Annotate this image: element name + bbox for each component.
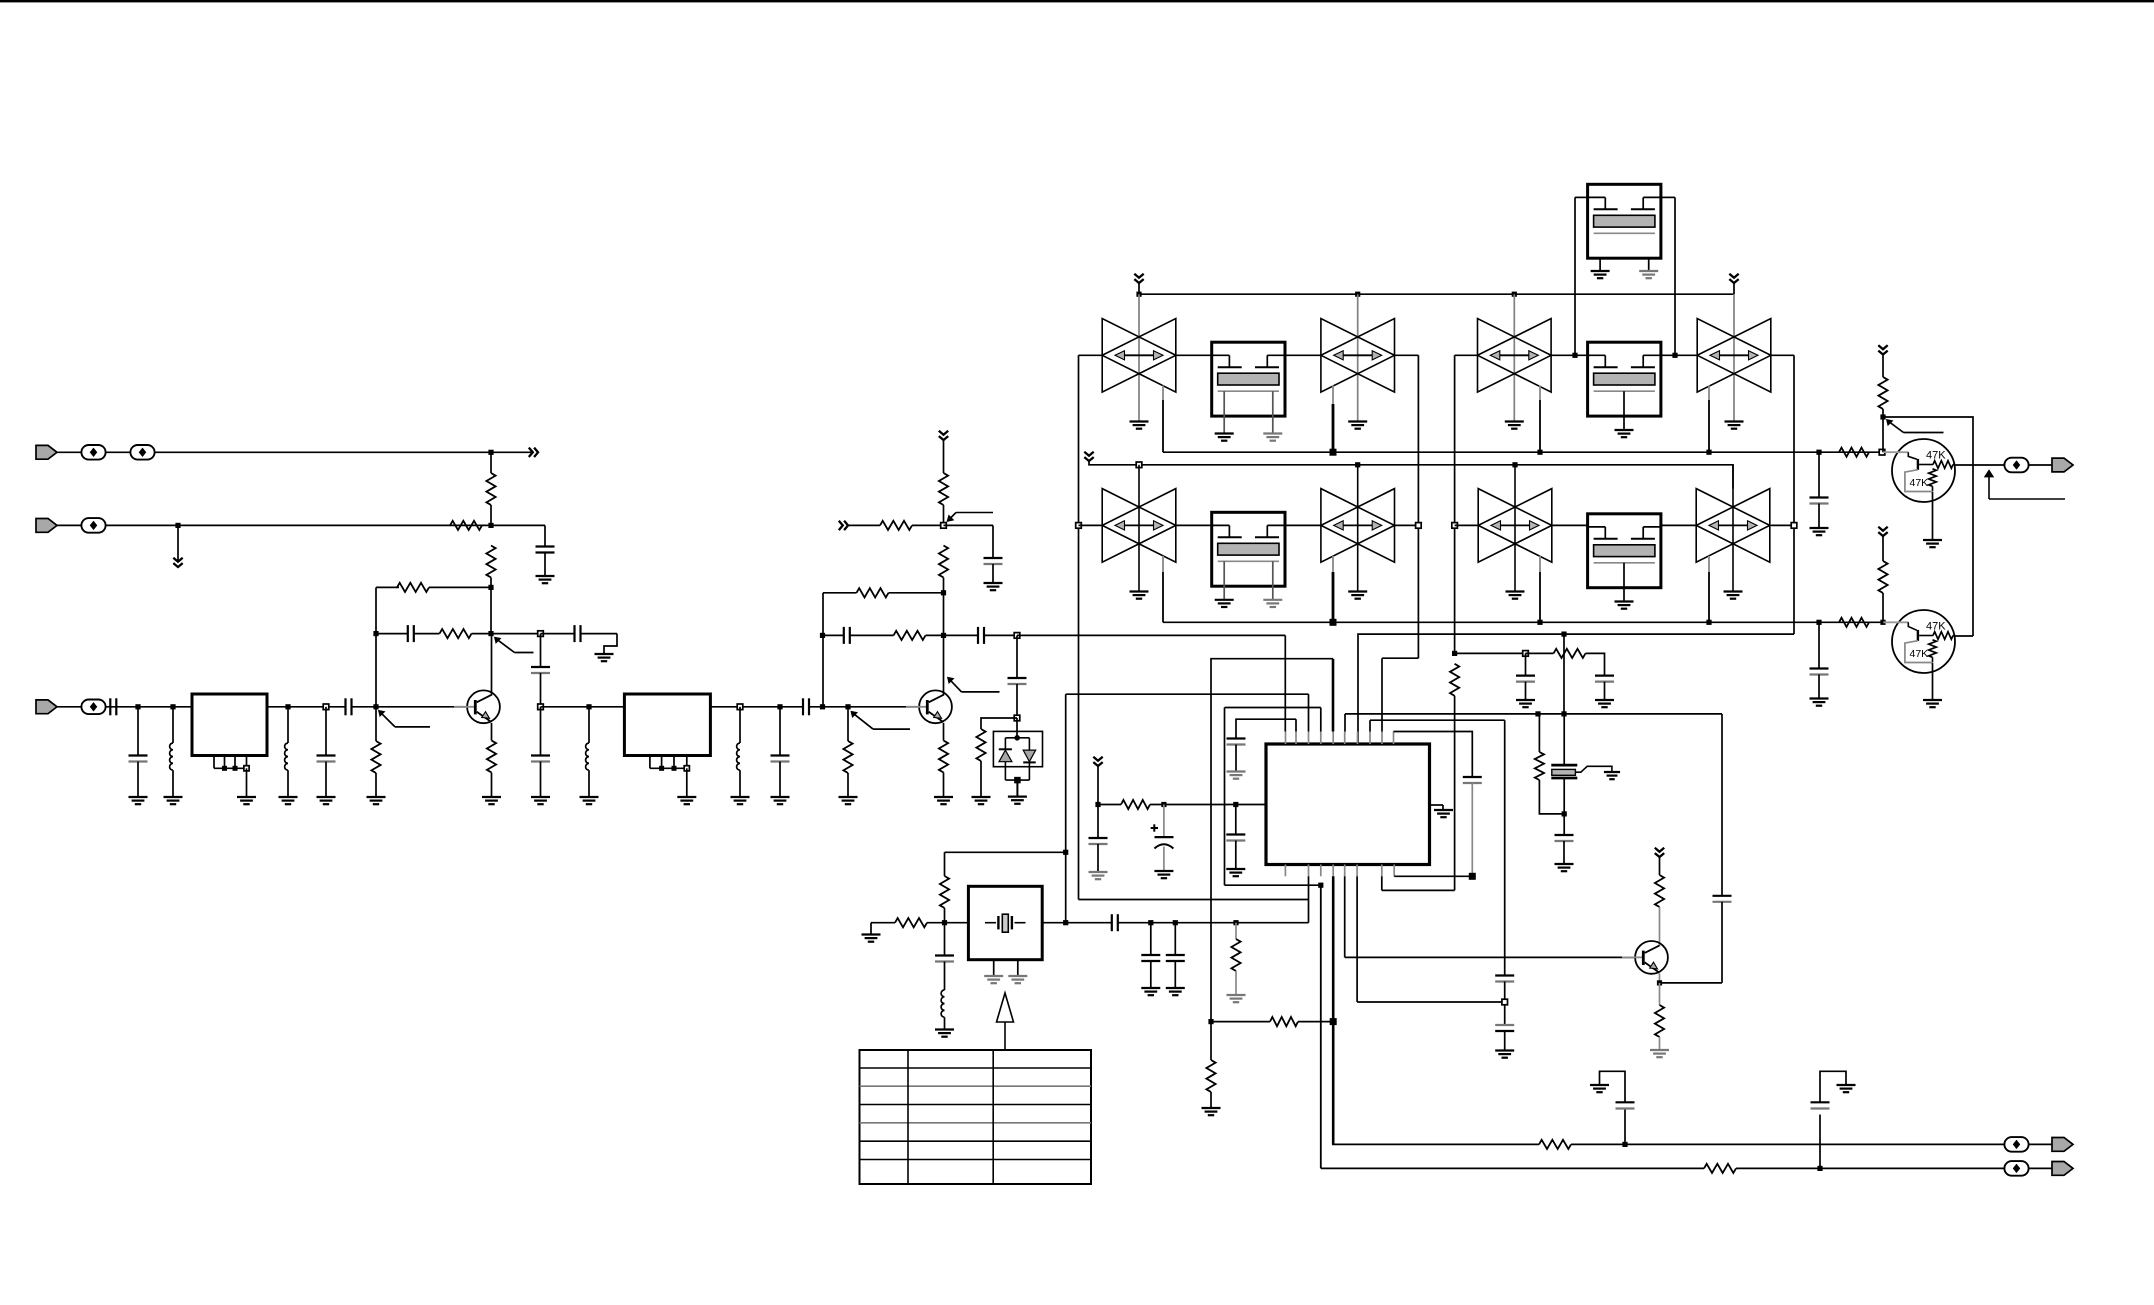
wire xyxy=(1430,804,1444,806)
wire xyxy=(1551,524,1588,526)
wire xyxy=(491,451,531,453)
wire xyxy=(1454,355,1456,653)
wire xyxy=(1661,524,1696,526)
ground xyxy=(1639,270,1658,272)
wire xyxy=(1563,814,1565,835)
node xyxy=(1452,651,1457,656)
node xyxy=(737,704,743,710)
ground xyxy=(1595,699,1614,701)
ground xyxy=(862,933,881,935)
capacitor C29 xyxy=(935,954,954,956)
ceramic filter row2 xyxy=(1102,489,1176,563)
wire xyxy=(686,768,688,797)
filter FL7 xyxy=(1588,514,1661,588)
wire xyxy=(1308,694,1310,731)
filter FL1 xyxy=(192,694,267,756)
ground xyxy=(1202,1107,1221,1109)
node xyxy=(1148,920,1153,925)
annotation arrow xyxy=(948,677,954,683)
wire xyxy=(544,525,546,546)
wire xyxy=(287,770,289,797)
IC U1 xyxy=(1266,744,1430,865)
wire xyxy=(1661,354,1697,356)
ground xyxy=(1348,420,1367,422)
wire xyxy=(541,706,625,708)
wire xyxy=(1455,652,1526,654)
ground xyxy=(1227,770,1246,772)
wire xyxy=(1344,876,1346,957)
wire xyxy=(1819,1115,1821,1169)
capacitor C1 xyxy=(536,545,555,547)
wire xyxy=(1079,354,1103,356)
wire xyxy=(943,440,945,473)
node xyxy=(941,633,946,638)
ground xyxy=(677,796,696,798)
ground xyxy=(1591,270,1610,272)
node xyxy=(941,590,946,595)
node xyxy=(1173,920,1178,925)
wire xyxy=(1954,635,1973,637)
resistor R18 xyxy=(1554,649,1586,658)
ground xyxy=(1506,590,1525,592)
filter FL2 xyxy=(624,694,710,756)
wire leg xyxy=(993,960,995,976)
wire xyxy=(984,634,1017,636)
ceramic filter row1 xyxy=(1102,319,1176,393)
ground xyxy=(595,653,614,655)
wire xyxy=(779,707,781,756)
ground xyxy=(1555,863,1574,865)
wire xyxy=(325,762,327,798)
node xyxy=(1817,1166,1822,1171)
ground xyxy=(1615,429,1634,431)
resistor R8 xyxy=(843,741,852,773)
filter FL3 xyxy=(1212,342,1285,416)
wire pin xyxy=(686,756,688,769)
ground xyxy=(482,796,501,798)
wire xyxy=(1586,653,1605,675)
wire xyxy=(1016,718,1018,738)
node xyxy=(1063,920,1068,925)
wire xyxy=(1138,294,1140,421)
wire xyxy=(540,707,542,756)
wire xyxy=(490,452,492,473)
node xyxy=(1706,450,1711,455)
wire xyxy=(1332,659,1335,732)
wire xyxy=(491,723,493,741)
capacitor C16 xyxy=(1810,496,1829,498)
ground xyxy=(1263,599,1282,601)
wire xyxy=(1174,961,1176,988)
wire xyxy=(541,633,575,635)
wire xyxy=(1526,652,1554,654)
wire xyxy=(287,707,289,743)
wire pin xyxy=(1320,732,1322,745)
ground xyxy=(1724,590,1743,592)
ground xyxy=(1226,868,1245,870)
wire xyxy=(172,707,174,743)
wire xyxy=(1932,663,1934,700)
annotation arrow xyxy=(495,637,501,643)
wire xyxy=(1659,983,1661,1005)
wire xyxy=(1005,737,1029,739)
arrow down xyxy=(1878,345,1887,349)
wire xyxy=(1882,536,1884,561)
wire xyxy=(1882,409,1884,417)
resistor R10 xyxy=(857,588,889,597)
ground xyxy=(1810,697,1829,699)
wire xyxy=(1211,659,1333,1022)
node xyxy=(1318,883,1323,888)
ground xyxy=(934,796,953,798)
ground xyxy=(1215,599,1234,601)
wire xyxy=(1016,684,1018,718)
ferrite bead FB1 xyxy=(81,445,105,460)
wire leg xyxy=(1223,391,1225,433)
wire xyxy=(2028,1167,2052,1169)
capacitor C10 xyxy=(771,754,790,756)
wire xyxy=(1235,841,1237,870)
ground xyxy=(1810,527,1829,529)
resistor R5 xyxy=(371,741,380,773)
wire xyxy=(1551,354,1588,356)
wire xyxy=(1089,461,1733,489)
capacitor C21 xyxy=(1463,776,1482,778)
wire xyxy=(1236,804,1266,806)
node xyxy=(170,704,175,709)
node xyxy=(488,631,493,636)
ground xyxy=(1650,1049,1669,1051)
connector J1 xyxy=(36,445,57,459)
annotation arrow xyxy=(1985,470,1994,477)
resistor R14 xyxy=(894,631,926,640)
wire xyxy=(710,706,803,708)
ferrite bead FB4 xyxy=(81,700,105,715)
diode D1b xyxy=(1023,750,1035,762)
node xyxy=(373,704,378,709)
arrow down xyxy=(1093,757,1102,761)
wire xyxy=(1708,556,1710,572)
wire xyxy=(491,773,493,798)
resistor R26 xyxy=(1270,1017,1298,1026)
ground xyxy=(1166,987,1185,989)
table xyxy=(860,1050,1092,1184)
inductor L2 xyxy=(285,743,288,770)
wire xyxy=(414,633,440,635)
node xyxy=(1233,802,1238,807)
wire xyxy=(1118,922,1309,924)
wire xyxy=(1235,971,1237,995)
wire xyxy=(1176,524,1212,526)
ground xyxy=(984,975,1003,977)
inductor L3 xyxy=(586,743,589,770)
wire xyxy=(491,633,540,635)
wire xyxy=(943,578,945,593)
wire xyxy=(944,1017,946,1029)
wire leg xyxy=(1599,258,1601,271)
arrow down xyxy=(1729,274,1738,278)
node xyxy=(538,631,544,637)
capacitor C19 xyxy=(1595,674,1614,676)
wire xyxy=(926,634,944,636)
node xyxy=(488,450,493,455)
node xyxy=(1535,711,1540,716)
ceramic filter row1 xyxy=(1697,319,1771,393)
wire xyxy=(1883,417,1973,636)
wire xyxy=(1211,1021,1270,1023)
wire xyxy=(491,524,545,526)
wire pin xyxy=(224,756,226,769)
ground xyxy=(1008,975,1027,977)
node xyxy=(777,704,782,709)
wire xyxy=(352,706,469,708)
wire xyxy=(944,923,946,956)
wire leg xyxy=(1623,563,1625,602)
wire leg xyxy=(1223,561,1225,600)
node xyxy=(1672,353,1677,358)
wire xyxy=(1882,355,1884,378)
wire leg xyxy=(1648,258,1650,271)
wire xyxy=(1624,1109,1626,1145)
wire xyxy=(376,633,408,635)
wire xyxy=(1538,714,1540,752)
wire xyxy=(1138,465,1140,592)
ground xyxy=(1604,771,1620,773)
ground xyxy=(1130,420,1149,422)
wire xyxy=(1079,899,1309,901)
wire xyxy=(1174,923,1176,955)
node xyxy=(1330,449,1337,456)
capacitor C2 xyxy=(109,698,111,715)
node xyxy=(1512,462,1517,467)
capacitor C23 xyxy=(1089,837,1108,839)
wire xyxy=(1513,294,1515,421)
wire xyxy=(1395,354,1419,356)
wire xyxy=(1298,1021,1332,1023)
wire xyxy=(1882,417,1884,452)
wire pin xyxy=(661,756,663,769)
wire xyxy=(1284,635,1286,731)
wire xyxy=(137,762,139,798)
wire xyxy=(1079,524,1103,526)
resistor R3 xyxy=(486,546,495,578)
resistor R16 xyxy=(1839,448,1869,457)
wire xyxy=(540,762,542,798)
wire xyxy=(1356,876,1358,1002)
wire xyxy=(944,908,946,923)
wire xyxy=(1771,524,1794,526)
node xyxy=(538,704,544,710)
wire xyxy=(847,773,849,797)
wire xyxy=(57,706,192,708)
ground xyxy=(1215,432,1234,434)
capacitor C14 xyxy=(977,627,979,644)
resistor R15 xyxy=(976,729,985,761)
wire xyxy=(1078,355,1080,899)
wire xyxy=(1285,524,1321,526)
ferrite bead FB3 xyxy=(81,518,105,533)
wire xyxy=(1504,1031,1506,1051)
wire xyxy=(376,586,399,588)
ground xyxy=(536,575,555,577)
capacitor C12 xyxy=(984,557,1003,559)
wire xyxy=(1525,682,1527,700)
wire xyxy=(1395,524,1419,526)
wire xyxy=(325,707,327,756)
ground xyxy=(984,582,1003,584)
node xyxy=(1014,735,1020,741)
node xyxy=(1561,632,1566,637)
inductor L1 xyxy=(170,743,173,770)
capacitor C34 xyxy=(1811,1101,1830,1103)
node xyxy=(1502,999,1508,1005)
node xyxy=(1706,620,1711,625)
wire leg xyxy=(1623,391,1625,430)
ground xyxy=(1615,600,1634,602)
resistor R2 xyxy=(450,521,482,530)
wire xyxy=(588,707,590,743)
wire xyxy=(1097,805,1099,839)
ground xyxy=(1130,590,1149,592)
wire xyxy=(1818,452,1820,497)
wire xyxy=(1016,780,1018,797)
wire top bus xyxy=(1139,293,1734,295)
wire xyxy=(1659,974,1661,983)
connector J5 xyxy=(2052,1138,2073,1152)
wire xyxy=(1954,464,2005,466)
node xyxy=(1562,811,1567,816)
wire xyxy=(490,505,492,525)
node xyxy=(1572,353,1577,358)
arrow in xyxy=(839,521,843,530)
node xyxy=(1879,449,1885,455)
resistor R27 xyxy=(1655,875,1664,907)
node xyxy=(1880,620,1885,625)
wire xyxy=(992,564,994,583)
wire xyxy=(1771,354,1794,356)
wire pin xyxy=(649,756,651,769)
wire xyxy=(177,525,179,562)
wire xyxy=(1504,982,1506,1026)
capacitor C5 xyxy=(344,698,346,715)
capacitor C17 xyxy=(1810,667,1829,669)
node xyxy=(941,523,947,529)
ceramic filter row1 xyxy=(1321,319,1395,393)
ground xyxy=(1725,420,1744,422)
node xyxy=(1622,1142,1627,1147)
ground xyxy=(237,796,256,798)
node xyxy=(845,704,850,709)
arrow down xyxy=(1655,848,1664,852)
node xyxy=(1014,715,1020,721)
wire xyxy=(1563,778,1565,814)
node xyxy=(1416,523,1422,529)
wire xyxy=(1357,465,1359,592)
resistor R9 xyxy=(939,741,948,773)
annotation arrow xyxy=(379,710,385,716)
wire xyxy=(1661,196,1675,198)
node xyxy=(1452,523,1458,529)
wire xyxy=(1471,783,1473,877)
wire xyxy=(1660,982,1723,984)
resistor R28 xyxy=(1655,1005,1664,1037)
connector J2 xyxy=(36,519,57,533)
arrow down xyxy=(1134,274,1143,278)
wire xyxy=(1320,708,1322,732)
wire xyxy=(1818,504,1820,529)
ground xyxy=(164,796,183,798)
wire xyxy=(1369,720,1371,731)
connector J4 xyxy=(2052,458,2073,472)
wire xyxy=(1454,696,1456,891)
node xyxy=(1537,620,1542,625)
wire xyxy=(1563,841,1565,864)
node xyxy=(1523,651,1529,657)
ground xyxy=(279,796,298,798)
inductor L4 xyxy=(737,743,740,770)
ground xyxy=(531,796,550,798)
wire xyxy=(604,634,617,654)
ground xyxy=(1923,539,1942,541)
ceramic filter row2 xyxy=(1478,489,1552,563)
capacitor C30 xyxy=(1111,914,1113,931)
node xyxy=(1136,292,1141,297)
wire xyxy=(1563,714,1565,765)
wire xyxy=(1332,1143,1539,1145)
wire xyxy=(1150,923,1152,955)
capacitor C31 xyxy=(1141,954,1160,956)
ground xyxy=(580,796,599,798)
wire xyxy=(491,634,493,696)
capacitor C33 xyxy=(1616,1101,1635,1103)
resistor R1 xyxy=(486,473,495,505)
annotation arrow xyxy=(997,993,1014,1022)
wire pin xyxy=(1344,865,1346,877)
capacitor C15 xyxy=(1008,677,1027,679)
resistor R12 xyxy=(880,521,912,530)
wire xyxy=(1308,876,1310,922)
resistor R6 xyxy=(487,741,496,773)
capacitor C18 xyxy=(1516,674,1535,676)
wire xyxy=(980,761,982,797)
wire xyxy=(1332,876,1335,1021)
wire xyxy=(490,587,492,633)
node xyxy=(1537,450,1542,455)
ceramic filter row1 xyxy=(1478,319,1552,393)
node xyxy=(684,766,689,771)
wire xyxy=(1721,714,1723,896)
wire xyxy=(1097,844,1099,872)
wire xyxy=(1394,732,1473,778)
capacitor C22 xyxy=(1226,833,1245,835)
resistor R24 xyxy=(1231,939,1240,971)
wire leg xyxy=(1272,561,1274,600)
wire xyxy=(1600,1071,1626,1102)
connector J6 xyxy=(2052,1162,2073,1176)
ground xyxy=(1263,432,1282,434)
wire pin xyxy=(1320,865,1322,877)
wire xyxy=(472,633,492,635)
wire xyxy=(1932,492,1934,540)
node xyxy=(1076,523,1082,529)
wire xyxy=(1332,386,1334,405)
wire xyxy=(1235,745,1237,772)
svg-text:47K: 47K xyxy=(1910,648,1929,660)
capacitor C6 xyxy=(407,625,409,642)
wire xyxy=(1344,714,1346,732)
wire pin xyxy=(1308,865,1310,877)
wire xyxy=(1455,354,1478,356)
